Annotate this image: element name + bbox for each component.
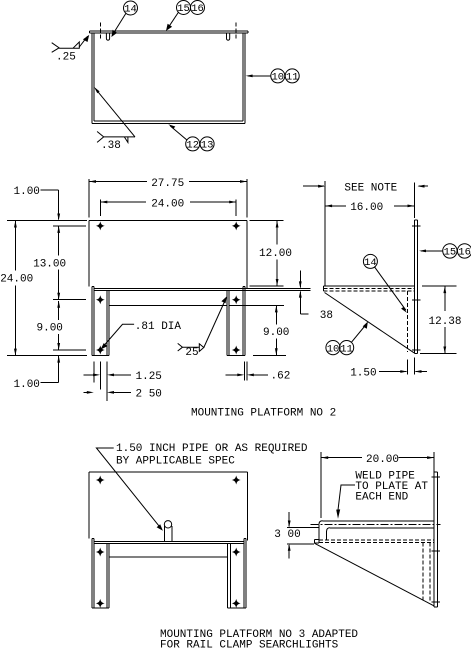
weld symbol .25 (front view) xyxy=(178,296,227,359)
front view platform no 3: back plate xyxy=(89,472,248,540)
dimension 24.00 (top) xyxy=(100,198,236,216)
dimension 1.00 (bottom left) xyxy=(14,356,61,391)
balloon 10 (side view) xyxy=(326,341,340,356)
svg-text:11: 11 xyxy=(340,343,353,355)
side view platform no 2: vertical back plate edge xyxy=(415,220,418,354)
svg-text:2 50: 2 50 xyxy=(136,388,162,400)
svg-text:16: 16 xyxy=(191,3,204,15)
extension lines below right leg xyxy=(244,362,247,381)
balloon 12 xyxy=(186,137,200,152)
side view: platform plate xyxy=(323,286,414,291)
svg-text:MOUNTING PLATFORM NO 2: MOUNTING PLATFORM NO 2 xyxy=(191,408,336,420)
svg-text:FOR RAIL CLAMP SEARCHLIGHTS: FOR RAIL CLAMP SEARCHLIGHTS xyxy=(160,640,339,648)
left extension lines xyxy=(7,221,87,356)
svg-text:EACH END: EACH END xyxy=(355,492,408,504)
svg-text:1.50: 1.50 xyxy=(350,367,376,379)
skirt box (top view body) xyxy=(92,33,245,124)
side view platform no 3: pipe (horizontal) xyxy=(310,521,440,540)
balloon 10 xyxy=(271,69,285,84)
front view: platform rail edge xyxy=(94,289,311,306)
pipe stub (front view) xyxy=(164,521,172,542)
svg-text:BY APPLICABLE SPEC: BY APPLICABLE SPEC xyxy=(116,456,235,468)
dimension 2 50 xyxy=(83,388,162,400)
side view: hole ticks on plate xyxy=(412,226,420,350)
svg-text:.25: .25 xyxy=(56,52,76,64)
side view: gusset diagonal xyxy=(325,293,415,353)
bolt hidden outline right xyxy=(227,33,230,40)
hole center marks (front view) xyxy=(96,221,241,354)
weld symbol .38 (bottom left) xyxy=(94,87,135,152)
side view no 3: hole ticks on plate xyxy=(432,477,440,602)
balloon 13 xyxy=(168,124,214,151)
front view no 3: platform rail edge xyxy=(94,542,244,558)
balloon 14 (side view) xyxy=(363,254,407,313)
svg-text:24.00: 24.00 xyxy=(0,274,33,286)
svg-text:SEE NOTE: SEE NOTE xyxy=(344,183,397,195)
balloon 11 (side view) xyxy=(340,322,368,356)
svg-text:16: 16 xyxy=(458,247,471,259)
weld symbol .25 (top left) xyxy=(52,35,89,64)
svg-text:25: 25 xyxy=(185,347,198,359)
bolt centerline left xyxy=(99,23,101,41)
svg-text:10: 10 xyxy=(271,72,284,84)
front view platform no 2: back plate xyxy=(89,221,247,289)
dimension 13.00 (left) xyxy=(33,226,66,300)
svg-text:.62: .62 xyxy=(271,370,291,382)
dimension .62 xyxy=(226,370,291,382)
front view: left leg channel xyxy=(92,286,109,355)
dimension 1.25 xyxy=(83,371,162,383)
dimension 20.00 xyxy=(321,452,434,518)
svg-text:20.00: 20.00 xyxy=(366,454,399,466)
svg-text:1.00: 1.00 xyxy=(14,186,40,198)
balloon 16 (side view) xyxy=(419,244,471,259)
note 1.50 INCH PIPE xyxy=(96,443,307,531)
side view no 3: hidden leg lines xyxy=(423,542,430,602)
dimension SEE NOTE xyxy=(303,181,428,286)
svg-text:9.00: 9.00 xyxy=(37,323,63,335)
svg-text:11: 11 xyxy=(286,72,299,84)
bolt centerline right xyxy=(235,23,237,41)
svg-text:15: 15 xyxy=(177,3,190,15)
svg-text:.81 DIA: .81 DIA xyxy=(135,321,182,333)
side view no 3: gusset diagonal xyxy=(314,543,434,606)
dimension 27.75 xyxy=(89,178,247,218)
leader .81 DIA xyxy=(101,321,182,350)
svg-text:1.00: 1.00 xyxy=(14,379,40,391)
svg-text:10: 10 xyxy=(327,343,340,355)
note WELD PIPE TO PLATE AT EACH END xyxy=(336,471,428,519)
balloon 15 (side view) xyxy=(443,244,457,259)
svg-text:9.00: 9.00 xyxy=(263,327,289,339)
front view no 3: right leg channel xyxy=(228,539,247,608)
dimension 1.00 (top left) xyxy=(14,186,61,221)
svg-text:12.00: 12.00 xyxy=(259,248,292,260)
balloon 14 xyxy=(111,1,137,37)
dimension 9.00 (left) xyxy=(37,301,63,350)
dimension 12.38 xyxy=(420,286,462,353)
right extension lines xyxy=(250,221,286,356)
svg-text:3 00: 3 00 xyxy=(274,529,300,541)
extension lines below left leg xyxy=(94,362,107,402)
hole center marks (front view no 3) xyxy=(96,476,241,608)
svg-text:24.00: 24.00 xyxy=(151,198,184,210)
plate thickness dimension 38 xyxy=(299,271,333,323)
svg-text:1.25: 1.25 xyxy=(136,371,162,383)
svg-text:.38: .38 xyxy=(101,140,121,152)
balloon 11 xyxy=(246,69,300,84)
side view no 3: platform rail xyxy=(314,528,434,543)
top plate strip (plan/top view, platform no 2) xyxy=(90,31,248,33)
svg-text:13: 13 xyxy=(201,140,214,152)
dimension 1.50 xyxy=(350,358,427,380)
dimension 3.00 xyxy=(274,512,318,559)
svg-text:16.00: 16.00 xyxy=(350,202,383,214)
dimension 16.00 xyxy=(325,202,414,214)
side view no 3: vertical back plate edge xyxy=(434,472,437,607)
svg-text:38: 38 xyxy=(320,310,333,322)
balloon 16 xyxy=(166,1,205,31)
svg-text:1.50 INCH PIPE OR AS REQUIRED: 1.50 INCH PIPE OR AS REQUIRED xyxy=(116,443,308,455)
svg-text:12: 12 xyxy=(186,140,199,152)
front view: right leg channel xyxy=(227,286,245,355)
svg-text:13.00: 13.00 xyxy=(33,258,66,270)
balloon 15 xyxy=(177,1,191,16)
svg-text:15: 15 xyxy=(444,247,457,259)
bolt hidden outline left xyxy=(106,33,109,40)
dimension 9.00 (right) xyxy=(263,305,289,355)
dimension 24.00 (far left) xyxy=(0,221,33,356)
svg-text:12.38: 12.38 xyxy=(429,316,462,328)
svg-text:27.75: 27.75 xyxy=(151,178,184,190)
side view: hidden leg line xyxy=(406,291,408,352)
dimension 12.00 (right) xyxy=(259,221,292,287)
front view no 3: left leg channel xyxy=(92,539,109,608)
